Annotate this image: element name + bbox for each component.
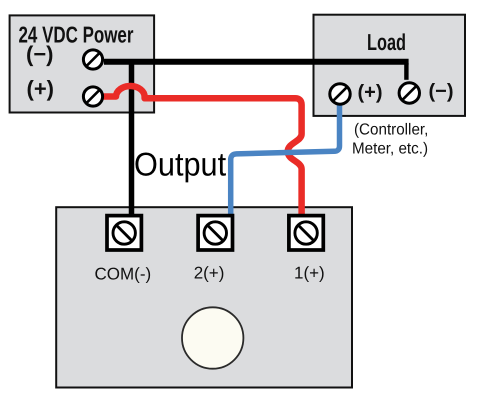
svg-text:(−): (−) xyxy=(429,81,454,103)
svg-text:(+): (+) xyxy=(27,76,55,101)
svg-text:COM(-): COM(-) xyxy=(95,265,152,284)
svg-text:2(+): 2(+) xyxy=(194,263,225,282)
svg-text:Output: Output xyxy=(134,146,226,183)
svg-text:Meter, etc.): Meter, etc.) xyxy=(352,141,428,158)
svg-text:(Controller,: (Controller, xyxy=(354,122,428,139)
svg-text:Load: Load xyxy=(367,29,406,55)
svg-text:(−): (−) xyxy=(26,42,54,67)
svg-text:1(+): 1(+) xyxy=(294,263,325,282)
svg-text:(+): (+) xyxy=(358,82,383,104)
